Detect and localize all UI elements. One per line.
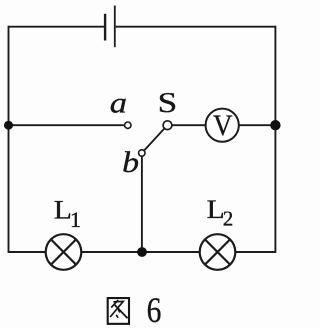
wire left rail [8, 26, 10, 253]
node bottom junction [137, 247, 147, 257]
wire pivot S to voltmeter [172, 124, 206, 126]
caption 图 6 [108, 291, 162, 328]
svg-text:S: S [158, 87, 178, 118]
voltmeter V [206, 109, 239, 143]
wire middle-left (left rail to contact a) [9, 124, 124, 126]
lamp L1 [46, 234, 82, 270]
node left junction [4, 121, 13, 130]
wire lamp L2 to right rail [235, 251, 275, 253]
wire contact b down to bottom node [141, 156, 143, 252]
switch S pivot [163, 121, 172, 130]
svg-text:b: b [122, 146, 139, 178]
svg-text:6: 6 [147, 291, 162, 328]
switch S contact b [139, 150, 145, 156]
wire lamp L1 to bottom node [81, 251, 199, 253]
switch S contact a [125, 122, 131, 128]
wire voltmeter to right rail [239, 124, 276, 126]
svg-text:V: V [213, 110, 233, 143]
wire bottom-left (left rail to lamp L1) [9, 251, 46, 253]
node right junction [270, 120, 280, 130]
svg-text:2: 2 [223, 207, 234, 231]
switch S blade [144, 128, 165, 150]
svg-text:1: 1 [70, 207, 81, 232]
wire top-left (battery to left rail) [9, 26, 105, 28]
wire right rail [274, 26, 276, 253]
lamp L2 [200, 234, 236, 270]
svg-text:a: a [110, 85, 127, 118]
battery [105, 6, 115, 48]
wire top-right (battery to right rail) [116, 26, 276, 28]
